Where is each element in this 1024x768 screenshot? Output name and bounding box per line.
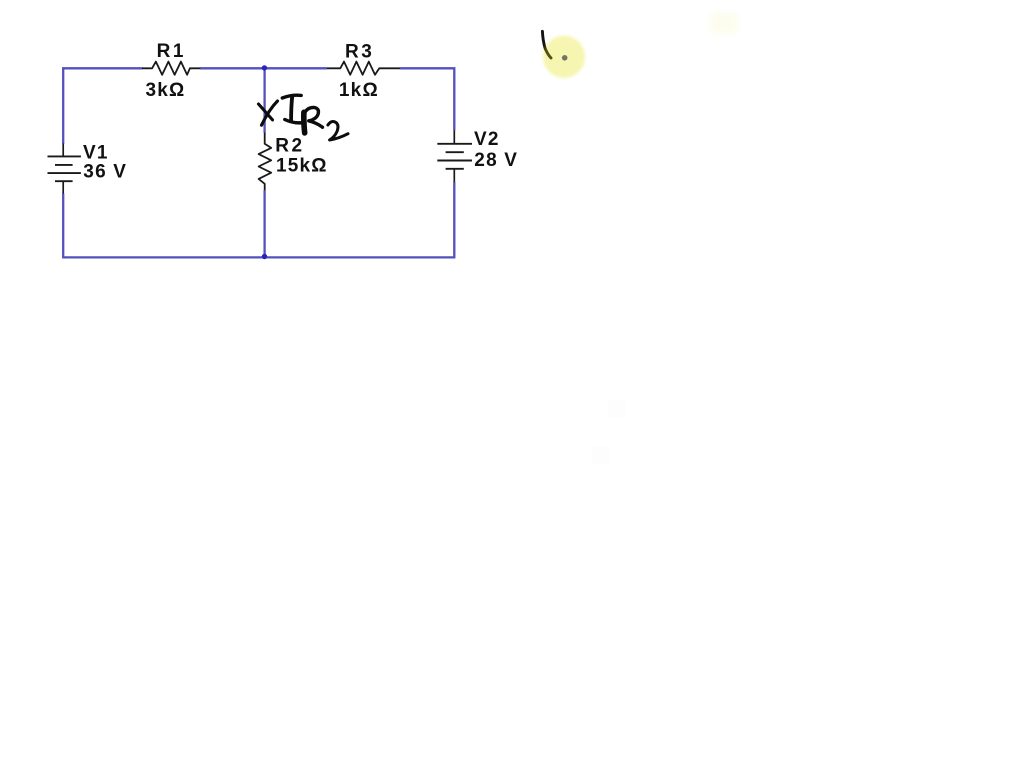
resistor R1 zigzag [142,62,200,75]
svg-text:1kΩ: 1kΩ [339,80,379,101]
battery V1 plate short bottom [55,180,73,182]
handwritten I bottom bar [285,120,305,123]
wire: top middle segment R1 to R3 through node A [200,67,327,69]
wire: bottom-left segment V1 bottom to node B [63,193,264,257]
svg-text:28 V: 28 V [474,150,518,171]
wire: middle branch upper stub node A to R2 [263,68,265,132]
battery V1 plate long top [48,155,81,157]
handwritten I stem [291,97,292,121]
handwritten X mark stroke 2 [259,104,273,120]
battery V1 top stub [62,144,64,157]
battery V2 plate short [446,151,464,153]
faint highlighter residue top right [710,12,738,34]
svg-text:V2: V2 [474,129,500,150]
wire: bottom-right segment node B to V2 bottom [265,182,455,257]
svg-text:3kΩ: 3kΩ [146,80,186,101]
handwritten subscript R stem [301,112,308,133]
battery V1 plate short [55,164,73,166]
wire: top-left segment from V1 top to R1 [63,68,142,143]
handwritten subscript R bowl [304,107,319,120]
svg-text:V1: V1 [83,142,109,163]
node A junction dot [262,65,267,70]
svg-text:36 V: 36 V [83,161,127,182]
svg-text:R1: R1 [157,41,186,62]
resistor R3 zigzag [327,62,400,75]
wire: middle branch lower stub R2 to node B [263,190,265,257]
svg-text:15kΩ: 15kΩ [276,155,328,176]
handwritten I top bar [282,95,301,98]
battery V2 bottom stub [453,169,455,182]
handwritten subscript 2 [328,122,348,140]
handwritten subscript R leg [309,121,323,127]
faint residue mark middle right lower [592,447,609,464]
svg-text:R3: R3 [345,42,374,63]
battery V1 bottom stub [62,181,64,193]
highlighter cursor glow [541,34,587,80]
battery V2 plate long top [437,143,472,145]
svg-text:R2: R2 [275,135,304,156]
pen stroke near highlighter cursor [542,31,551,58]
node B junction dot [262,254,267,259]
battery V2 top stub [453,130,455,144]
battery V1 plate long bottom [48,172,81,174]
cursor center dot [562,55,568,61]
faint residue mark middle right upper [608,400,625,417]
wire: top-right segment R3 to V2 top [400,68,455,130]
handwritten X mark stroke 1 [262,101,278,125]
battery V2 plate long bottom [437,160,472,162]
battery V2 plate short bottom [446,168,464,170]
resistor R2 vertical zigzag [259,133,272,191]
